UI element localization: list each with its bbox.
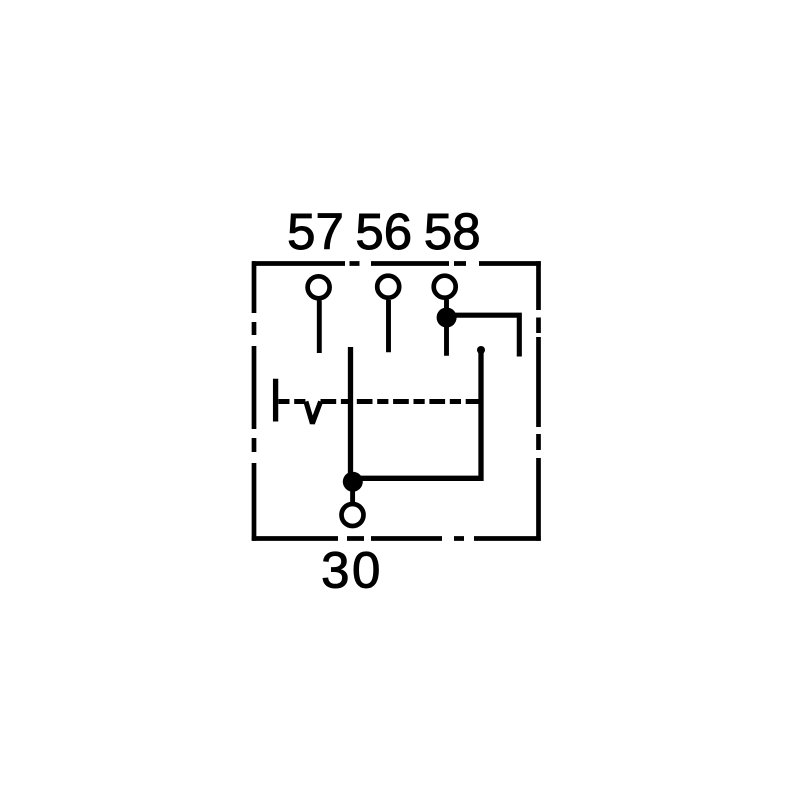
svg-text:30: 30 [321, 542, 383, 599]
svg-text:56: 56 [355, 203, 412, 260]
svg-text:58: 58 [424, 203, 481, 260]
svg-text:57: 57 [287, 203, 344, 260]
